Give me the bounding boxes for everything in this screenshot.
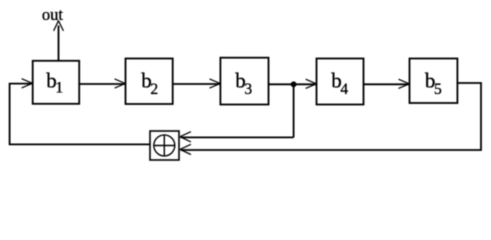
svg-text:3: 3	[244, 81, 252, 98]
svg-text:5: 5	[434, 81, 442, 98]
svg-text:out: out	[42, 5, 64, 24]
svg-text:1: 1	[55, 80, 63, 97]
svg-text:2: 2	[150, 81, 158, 98]
svg-text:4: 4	[340, 81, 348, 98]
